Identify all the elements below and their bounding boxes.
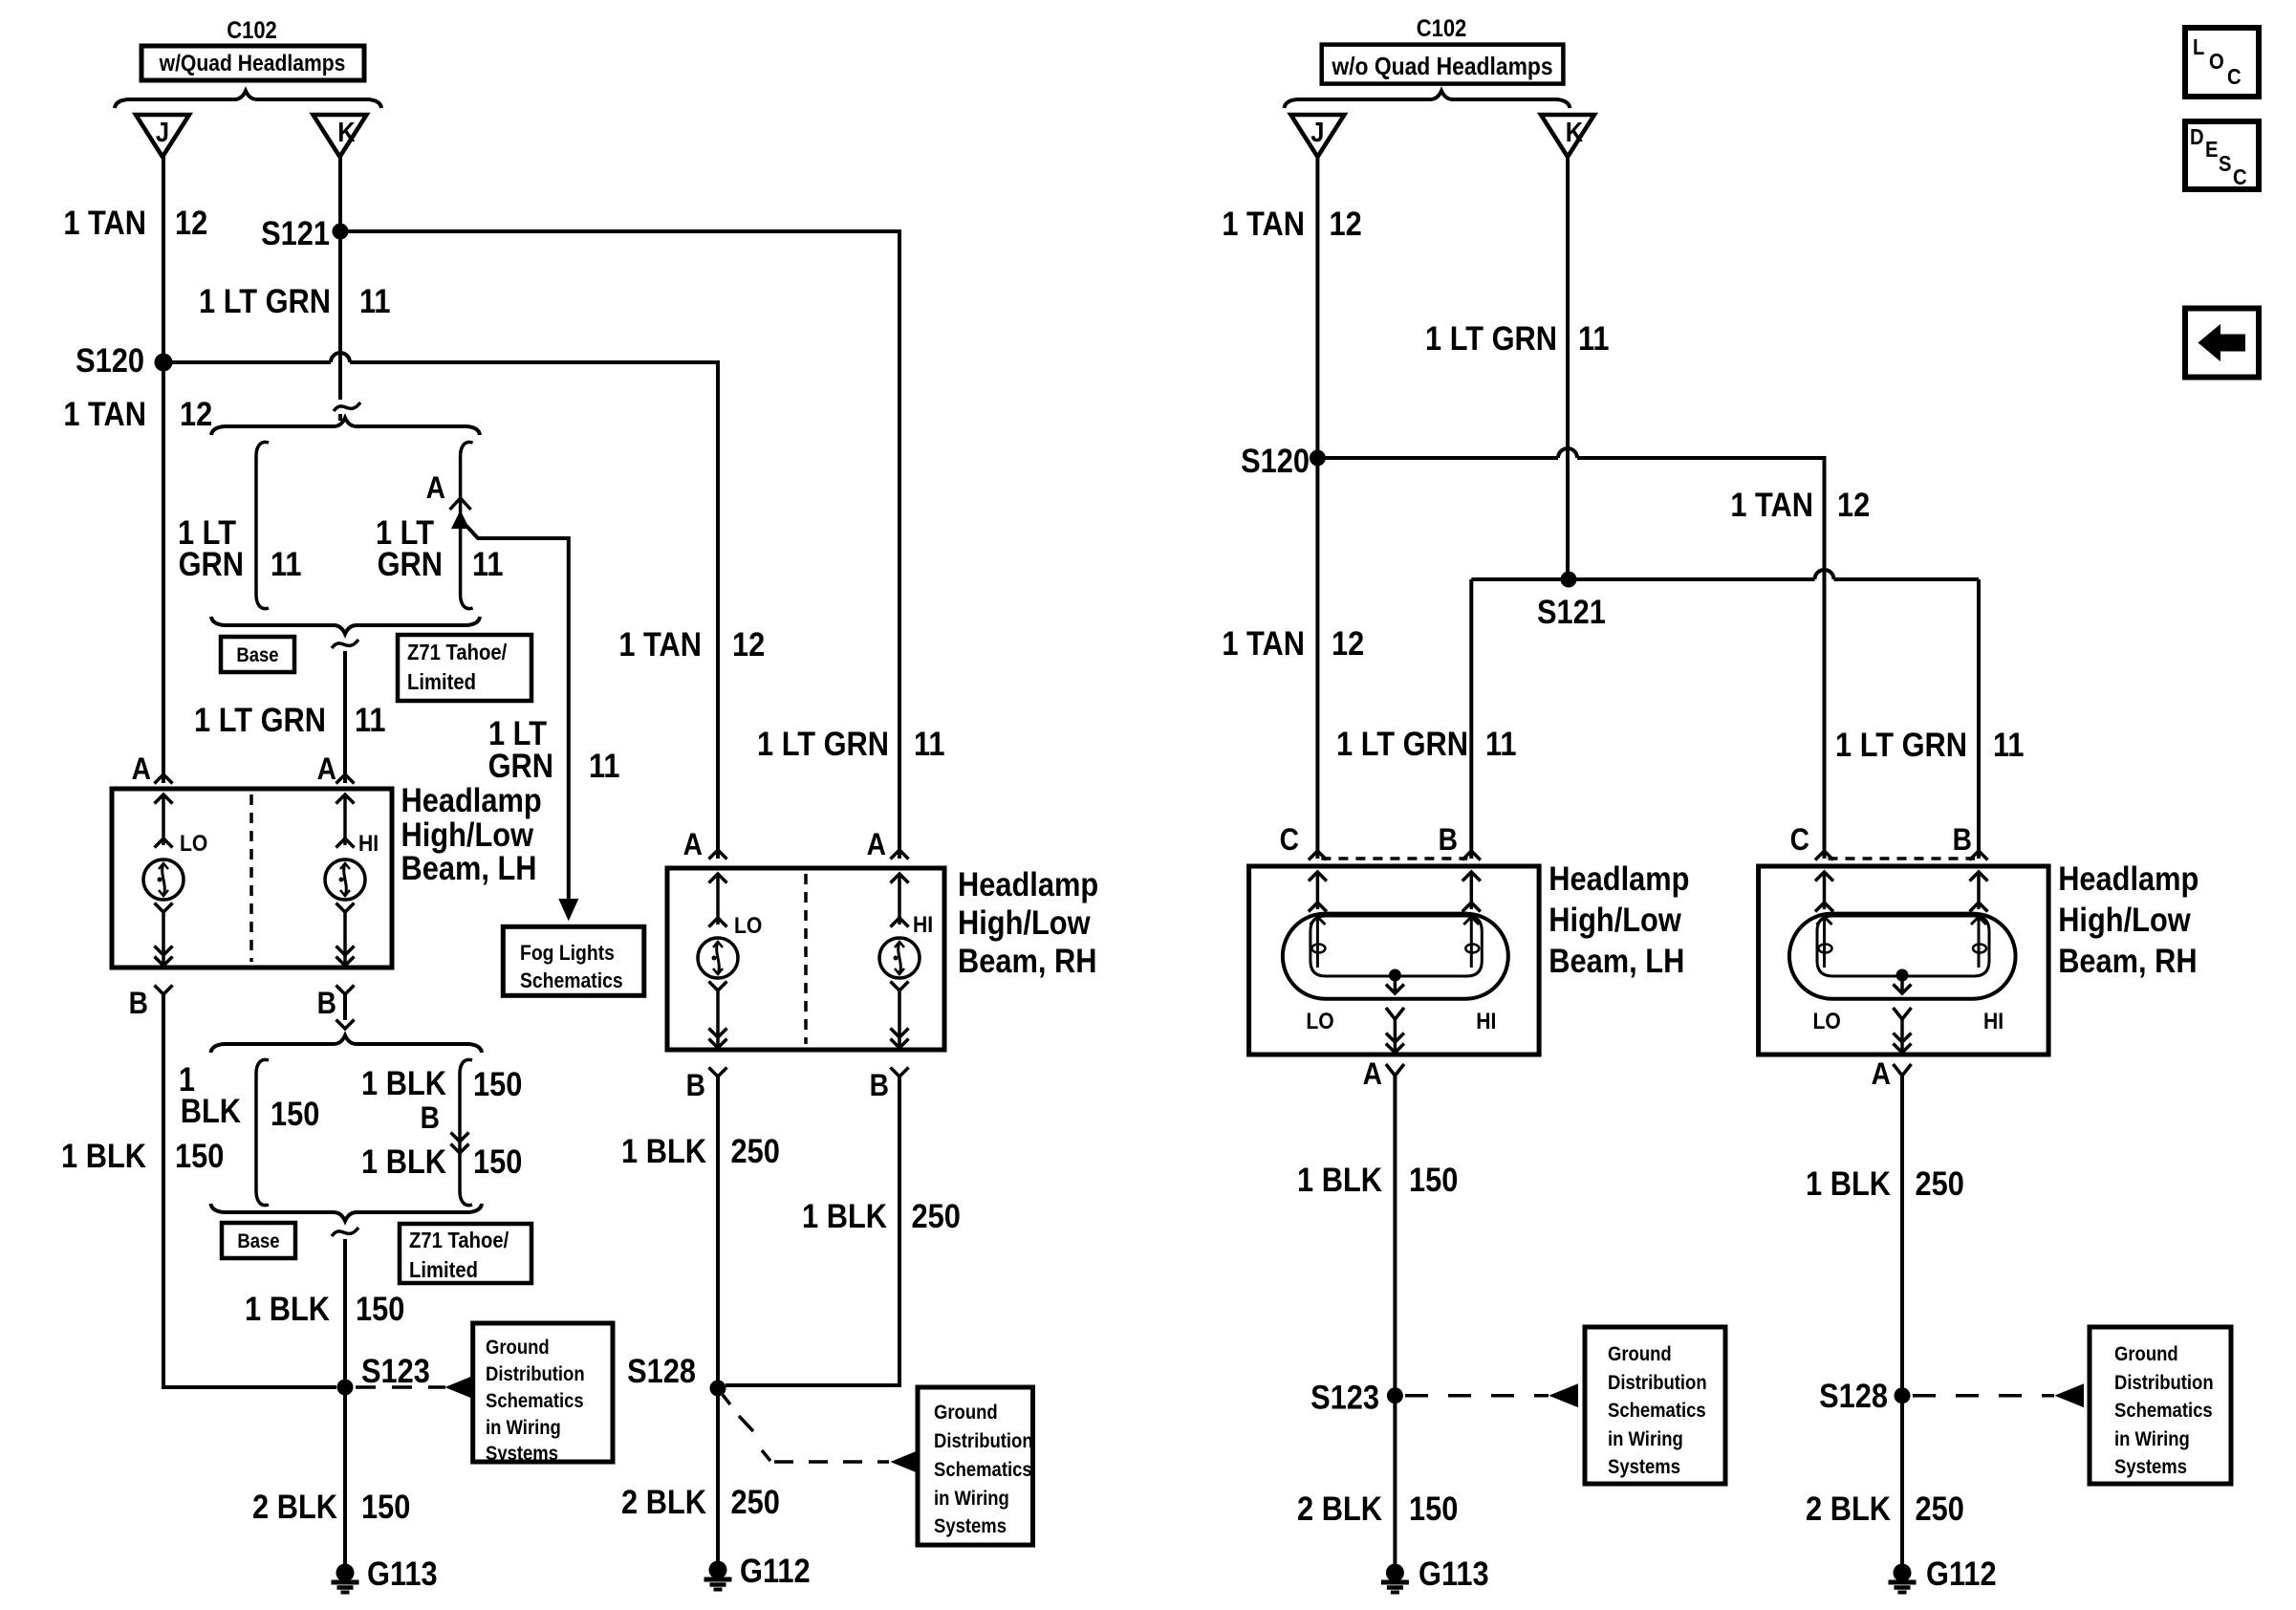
svg-text:A: A	[1363, 1057, 1382, 1091]
svg-text:Schematics: Schematics	[1608, 1400, 1706, 1422]
ground G112 (left)	[704, 1552, 811, 1589]
svg-text:11: 11	[271, 545, 302, 582]
label 1 LT GRN 11 (RH quad HI wire)	[757, 725, 945, 762]
svg-text:2 BLK: 2 BLK	[621, 1483, 706, 1520]
svg-text:GRN: GRN	[488, 747, 553, 784]
splice S121 (left)	[261, 214, 348, 251]
label 1 TAN 12 (RH quad LO wire)	[618, 625, 765, 663]
svg-text:S128: S128	[627, 1352, 696, 1389]
svg-text:12: 12	[1837, 486, 1870, 523]
svg-text:Ground: Ground	[1608, 1343, 1672, 1365]
legend box LOC	[2185, 28, 2259, 97]
svg-text:Headlamp: Headlamp	[958, 865, 1098, 903]
svg-text:B: B	[129, 987, 148, 1020]
svg-text:Systems: Systems	[934, 1515, 1007, 1537]
label pin A (right RH)	[1872, 1057, 1891, 1091]
ground G113 (left)	[332, 1555, 438, 1592]
splice S123 (left)	[337, 1352, 430, 1395]
svg-text:G112: G112	[740, 1552, 811, 1589]
box w/o Quad Headlamps	[1322, 45, 1564, 84]
ground G113 (right)	[1381, 1555, 1489, 1592]
svg-text:1 TAN: 1 TAN	[618, 625, 702, 663]
label 1 LT GRN 11 (merged wire)	[194, 701, 386, 738]
svg-text:A: A	[426, 471, 445, 505]
wire S121 to RH headlamp HI (left)	[340, 231, 899, 859]
label 2 BLK 150 (left)	[252, 1488, 410, 1525]
box Base (upper)	[221, 637, 294, 672]
label pin B (right RH)	[1953, 823, 1972, 857]
wire S120 to RH headlamp pin C (right)	[1317, 448, 1824, 859]
svg-text:12: 12	[1332, 624, 1364, 662]
svg-text:in Wiring: in Wiring	[486, 1417, 561, 1439]
svg-text:12: 12	[180, 395, 212, 432]
svg-text:150: 150	[271, 1095, 319, 1132]
svg-text:11: 11	[914, 725, 945, 762]
wire B left 1 BLK 150 down to S123	[163, 994, 336, 1387]
svg-text:11: 11	[1993, 726, 2025, 763]
label 1 BLK 250 (RH quad left B)	[621, 1132, 780, 1169]
svg-text:S123: S123	[361, 1352, 430, 1389]
wire S123 to ground G113 (left)	[343, 1387, 347, 1565]
label connector B (Z71 branch)	[421, 1101, 440, 1135]
svg-text:11: 11	[472, 545, 504, 582]
svg-text:Distribution: Distribution	[486, 1363, 585, 1385]
svg-text:C102: C102	[1417, 15, 1467, 42]
label pin B (RH quad left)	[686, 1069, 705, 1102]
wire RH pin B vertical (right)	[1977, 579, 1981, 859]
brace split Base/Z71 (upper)	[211, 418, 480, 435]
label pin B (LH headlamp right)	[317, 987, 336, 1020]
label pin B (right LH)	[1439, 823, 1458, 857]
svg-text:1 BLK: 1 BLK	[361, 1142, 446, 1180]
svg-text:Base: Base	[237, 1230, 279, 1252]
label 1 LTGRN 11 (right LH B wire)	[1336, 725, 1517, 762]
svg-text:11: 11	[589, 747, 620, 784]
headlamp High/Low Beam LH box (non-quad)	[1249, 851, 1540, 1076]
label 1 LTGRN 11 (right RH B wire)	[1835, 726, 2025, 763]
svg-text:G113: G113	[367, 1555, 438, 1592]
label HI (LH quad)	[358, 831, 379, 857]
wire B right to merge brace	[343, 994, 347, 1020]
svg-text:1 BLK: 1 BLK	[802, 1197, 887, 1234]
svg-text:Ground: Ground	[486, 1337, 550, 1359]
svg-text:Ground: Ground	[2114, 1343, 2178, 1365]
label 1 TAN 12 (left below S120)	[63, 395, 212, 432]
svg-text:B: B	[1953, 823, 1972, 857]
splice S128 (right)	[1819, 1377, 1910, 1414]
box Z71 Tahoe/Limited (upper)	[398, 635, 531, 701]
svg-text:250: 250	[731, 1483, 780, 1520]
svg-text:S120: S120	[76, 341, 144, 379]
label 1 LT GRN 11 (right K wire)	[1425, 319, 1610, 357]
svg-text:S121: S121	[261, 214, 330, 251]
svg-text:150: 150	[1409, 1490, 1458, 1527]
svg-text:LO: LO	[1813, 1009, 1841, 1034]
svg-text:J: J	[156, 116, 169, 147]
ground G112 (right)	[1889, 1555, 1997, 1592]
arrowhead into fog lights box	[560, 900, 577, 919]
svg-text:C: C	[2227, 64, 2242, 90]
svg-text:1 BLK: 1 BLK	[361, 1064, 446, 1101]
svg-text:12: 12	[732, 625, 765, 663]
wire S128 to G112 (right)	[1900, 1396, 1904, 1565]
legend box DESC	[2185, 121, 2259, 189]
svg-text:BLK: BLK	[181, 1092, 241, 1129]
wire S123 to G113 (right)	[1393, 1396, 1397, 1565]
label 1 BLK 150 (right LH)	[1297, 1161, 1458, 1198]
svg-text:HI: HI	[1983, 1009, 2004, 1034]
svg-text:1 BLK: 1 BLK	[621, 1132, 706, 1169]
svg-text:LO: LO	[1306, 1009, 1333, 1034]
svg-text:1 BLK: 1 BLK	[61, 1137, 146, 1174]
bracket Base branch (lower)	[256, 1059, 269, 1205]
wire J vertical 1 TAN (right)	[1315, 157, 1319, 859]
bulb HI LH headlamp (quad) with pin symbols	[325, 774, 365, 994]
wire pin A to S128 (right)	[1900, 1076, 1904, 1396]
legend box back arrow	[2185, 309, 2259, 378]
box Fog Lights Schematics	[503, 926, 644, 995]
label connector A (fog tap)	[426, 471, 445, 505]
label 1 BLK 150 Z71 upper	[361, 1064, 522, 1102]
svg-text:250: 250	[912, 1197, 961, 1234]
svg-text:C: C	[2233, 164, 2247, 190]
svg-text:250: 250	[1916, 1490, 1964, 1527]
wire S128 to ground G112 (left)	[716, 1388, 720, 1562]
svg-text:Schematics: Schematics	[934, 1459, 1032, 1481]
svg-text:Systems: Systems	[1608, 1456, 1680, 1478]
svg-text:1 LT GRN: 1 LT GRN	[1835, 726, 1967, 763]
splice S121 (right)	[1537, 572, 1606, 631]
label pin A (RH quad left)	[683, 828, 703, 861]
label pin A (LH headlamp right pin)	[317, 752, 336, 786]
svg-text:C: C	[1280, 823, 1299, 857]
brace merge Base/Z71 (lower)	[211, 1204, 483, 1221]
svg-text:S121: S121	[1537, 593, 1606, 630]
svg-text:Base: Base	[236, 644, 278, 666]
bracket Z71 branch (upper) with connector A to fog lights	[450, 442, 569, 900]
svg-text:Limited: Limited	[407, 669, 476, 695]
connector C102 label (right)	[1417, 15, 1467, 42]
svg-text:K: K	[337, 116, 356, 147]
wire merged 1 BLK to S123	[332, 1228, 358, 1387]
svg-text:1 BLK: 1 BLK	[1806, 1164, 1891, 1202]
label 1 BLK 150 Z71 lower	[361, 1142, 522, 1180]
svg-text:Distribution: Distribution	[934, 1430, 1033, 1452]
svg-text:w/o Quad Headlamps: w/o Quad Headlamps	[1331, 54, 1552, 81]
svg-text:C102: C102	[227, 17, 277, 44]
headlamp High/Low Beam RH box (non-quad)	[1759, 851, 2049, 1076]
svg-text:Beam, LH: Beam, LH	[1549, 942, 1684, 979]
svg-text:GRN: GRN	[378, 545, 443, 582]
label pin A (RH quad right)	[867, 828, 886, 861]
svg-text:Headlamp: Headlamp	[1549, 859, 1689, 897]
svg-text:Schematics: Schematics	[486, 1390, 584, 1412]
svg-text:A: A	[1872, 1057, 1891, 1091]
wire LH pin B vertical (right)	[1469, 579, 1473, 859]
svg-text:1 BLK: 1 BLK	[1297, 1161, 1382, 1198]
svg-text:C: C	[1790, 823, 1809, 857]
label 1 BLK 250 (right RH)	[1806, 1164, 1964, 1202]
svg-text:Schematics: Schematics	[2114, 1400, 2213, 1422]
svg-text:B: B	[317, 987, 336, 1020]
brace under C102 (left)	[115, 91, 381, 108]
svg-text:HI: HI	[358, 831, 379, 857]
label 1 TAN 12 (right top)	[1222, 205, 1361, 242]
svg-text:11: 11	[355, 701, 386, 738]
bulb HI RH headlamp (quad) with pin symbols	[879, 850, 920, 1077]
svg-text:HI: HI	[1476, 1009, 1496, 1034]
brace under C102 (right)	[1285, 91, 1570, 108]
svg-text:250: 250	[731, 1132, 780, 1169]
svg-text:Distribution: Distribution	[1608, 1372, 1707, 1394]
svg-text:O: O	[2209, 49, 2224, 75]
box Ground Distribution Schematics (S123 left)	[473, 1323, 613, 1465]
svg-text:D: D	[2190, 124, 2204, 150]
svg-text:Beam, RH: Beam, RH	[2058, 942, 2197, 979]
splice S120 (left)	[76, 341, 172, 379]
label 1 BLK 150 (left B wire)	[61, 1137, 224, 1174]
svg-text:1 TAN: 1 TAN	[1222, 624, 1305, 662]
label pin B (RH quad right)	[870, 1069, 889, 1102]
svg-text:Ground: Ground	[934, 1402, 998, 1424]
svg-text:S128: S128	[1819, 1377, 1888, 1414]
box Base (lower)	[222, 1223, 295, 1258]
svg-text:J: J	[1310, 116, 1324, 147]
svg-text:LO: LO	[734, 913, 762, 939]
label pin A (right LH)	[1363, 1057, 1382, 1091]
svg-text:LO: LO	[180, 831, 207, 857]
svg-text:Systems: Systems	[2114, 1456, 2187, 1478]
wire S121 crossbar (right)	[1471, 570, 1979, 579]
svg-text:B: B	[870, 1069, 889, 1102]
svg-text:K: K	[1566, 116, 1584, 147]
svg-text:B: B	[686, 1069, 705, 1102]
svg-text:Headlamp: Headlamp	[2058, 859, 2199, 897]
svg-text:11: 11	[1485, 725, 1517, 762]
wire pin A to S123 (right)	[1393, 1076, 1397, 1396]
svg-text:Distribution: Distribution	[2114, 1372, 2214, 1394]
svg-text:GRN: GRN	[179, 545, 244, 582]
label 2 BLK 150 (right)	[1297, 1490, 1458, 1527]
connector pin K (right)	[1541, 115, 1594, 157]
svg-text:A: A	[867, 828, 886, 861]
svg-text:Beam, RH: Beam, RH	[958, 942, 1096, 979]
label 1 LT GRN 11 (fog lights wire)	[488, 714, 620, 784]
svg-text:w/Quad Headlamps: w/Quad Headlamps	[159, 51, 346, 76]
chevron above merge brace	[336, 1020, 355, 1030]
svg-text:A: A	[683, 828, 703, 861]
splice S123 (right)	[1310, 1379, 1403, 1416]
svg-text:Schematics: Schematics	[520, 969, 623, 992]
label 1 LT GRN 11 Base branch (upper)	[178, 513, 302, 582]
wire K vertical to S121 (right)	[1566, 157, 1570, 579]
svg-text:1 LT GRN: 1 LT GRN	[194, 701, 326, 738]
svg-text:150: 150	[473, 1142, 522, 1180]
svg-text:1 TAN: 1 TAN	[1222, 205, 1305, 242]
label 1 LT GRN 11 (left, K wire)	[199, 282, 391, 319]
dashed reference S123 to ground distribution (right)	[1405, 1385, 1577, 1406]
svg-text:High/Low: High/Low	[2058, 901, 2191, 938]
brace merge Base/Z71 (upper)	[211, 617, 480, 634]
box w/Quad Headlamps	[141, 46, 364, 80]
splice S120 (right)	[1241, 442, 1326, 479]
svg-text:2 BLK: 2 BLK	[1297, 1490, 1382, 1527]
bulb LO LH headlamp (quad) with pin symbols	[143, 774, 184, 994]
svg-text:1 LT GRN: 1 LT GRN	[757, 725, 889, 762]
svg-text:High/Low: High/Low	[401, 816, 534, 853]
svg-text:HI: HI	[913, 912, 933, 938]
svg-text:S120: S120	[1241, 442, 1310, 479]
label pin A (LH headlamp left pin)	[132, 752, 151, 786]
svg-text:12: 12	[175, 204, 207, 241]
label Headlamp High/Low Beam, LH (non-quad)	[1549, 859, 1689, 979]
label LO (RH quad)	[734, 913, 762, 939]
svg-text:E: E	[2205, 137, 2219, 163]
svg-text:S123: S123	[1310, 1379, 1379, 1416]
svg-text:Limited: Limited	[409, 1257, 478, 1283]
label 1 TAN 12 (left top)	[63, 204, 207, 241]
label 2 BLK 250 (right)	[1806, 1490, 1964, 1527]
svg-text:Beam, LH: Beam, LH	[401, 849, 537, 886]
svg-text:11: 11	[359, 282, 391, 319]
connector pin J (left)	[136, 115, 189, 157]
label 1 BLK 150 Base branch (lower)	[179, 1060, 319, 1132]
svg-text:12: 12	[1330, 205, 1362, 242]
svg-text:Fog Lights: Fog Lights	[520, 942, 615, 965]
label Headlamp High/Low Beam, RH (non-quad)	[2058, 859, 2199, 979]
label LO (LH quad)	[180, 831, 207, 857]
label pin B (LH headlamp left)	[129, 987, 148, 1020]
label pin C (right LH)	[1280, 823, 1299, 857]
svg-text:150: 150	[356, 1290, 404, 1327]
svg-text:B: B	[421, 1101, 440, 1135]
label 1 BLK 150 (merged ground wire)	[245, 1290, 404, 1327]
svg-text:150: 150	[1409, 1161, 1458, 1198]
brace split Base/Z71 (lower)	[211, 1035, 483, 1053]
svg-text:A: A	[132, 752, 151, 786]
label 1 TAN 12 (right J below S120)	[1222, 624, 1364, 662]
svg-text:G112: G112	[1926, 1555, 1997, 1592]
svg-text:11: 11	[1578, 319, 1610, 357]
wire B left 1 BLK 250 down to S128	[716, 1077, 720, 1388]
wire B right 1 BLK 250 to S128	[726, 1077, 899, 1385]
label 1 TAN 12 (right, S120 wire)	[1730, 486, 1870, 523]
wire J vertical 1 TAN (left)	[162, 157, 165, 783]
label Headlamp High/Low Beam, LH (quad)	[401, 781, 542, 886]
svg-text:B: B	[1439, 823, 1458, 857]
connector C102 label (left)	[227, 17, 277, 44]
bracket Base branch (upper)	[256, 442, 269, 608]
svg-text:Systems: Systems	[486, 1443, 558, 1465]
svg-text:Headlamp: Headlamp	[401, 781, 542, 818]
dashed reference S128 to ground distribution (right)	[1913, 1385, 2083, 1406]
svg-text:2 BLK: 2 BLK	[252, 1488, 337, 1525]
box Ground Distribution Schematics (S128 left)	[918, 1387, 1033, 1545]
svg-text:2 BLK: 2 BLK	[1806, 1490, 1891, 1527]
box Ground Distribution Schematics (S128 right)	[2090, 1327, 2231, 1484]
label Headlamp High/Low Beam, RH (quad)	[958, 865, 1098, 979]
box Z71 Tahoe/Limited (lower)	[400, 1224, 531, 1283]
bracket Z71 branch (lower) with inline connector B	[451, 1059, 473, 1205]
svg-text:Z71 Tahoe/: Z71 Tahoe/	[409, 1228, 509, 1253]
label pin C (right RH)	[1790, 823, 1809, 857]
svg-text:250: 250	[1916, 1164, 1964, 1202]
svg-text:G113: G113	[1419, 1555, 1489, 1592]
svg-text:in Wiring: in Wiring	[934, 1488, 1009, 1510]
dashed reference S128 to ground distribution (left)	[723, 1395, 919, 1472]
svg-text:1 TAN: 1 TAN	[63, 395, 146, 432]
svg-text:in Wiring: in Wiring	[2114, 1428, 2190, 1450]
svg-text:A: A	[317, 752, 336, 786]
wire-break squiggle on K wire	[334, 402, 360, 411]
headlamp High/Low Beam RH box (quad)	[667, 868, 944, 1050]
headlamp High/Low Beam LH box (quad)	[112, 789, 392, 968]
svg-text:High/Low: High/Low	[958, 903, 1091, 941]
label 2 BLK 250 (left)	[621, 1483, 780, 1520]
connector pin J (right)	[1290, 115, 1344, 157]
svg-text:1 LT GRN: 1 LT GRN	[1336, 725, 1468, 762]
svg-text:1 BLK: 1 BLK	[245, 1290, 330, 1327]
svg-text:High/Low: High/Low	[1549, 901, 1681, 938]
label HI (RH quad)	[913, 912, 933, 938]
label 1 LT GRN 11 Z71 branch (upper)	[376, 513, 504, 582]
svg-text:150: 150	[175, 1137, 224, 1174]
dashed reference S123 to ground distribution (left)	[356, 1377, 473, 1398]
label 1 BLK 250 (RH quad right B)	[802, 1197, 961, 1234]
svg-text:150: 150	[473, 1065, 522, 1102]
svg-text:1 LT GRN: 1 LT GRN	[1425, 319, 1557, 357]
box Ground Distribution Schematics (S123 right)	[1585, 1327, 1725, 1484]
svg-text:L: L	[2193, 34, 2204, 60]
bulb LO RH headlamp (quad) with pin symbols	[698, 850, 738, 1077]
wire K vertical 1 LT GRN (left)	[338, 157, 342, 421]
svg-text:1 LT GRN: 1 LT GRN	[199, 282, 331, 319]
wire merged 1 LT GRN to LH headlamp pin A right	[332, 640, 358, 783]
connector pin K (left)	[314, 115, 367, 157]
svg-text:1 TAN: 1 TAN	[63, 204, 146, 241]
svg-text:Z71 Tahoe/: Z71 Tahoe/	[407, 640, 507, 665]
svg-text:150: 150	[361, 1488, 410, 1525]
svg-text:1 TAN: 1 TAN	[1730, 486, 1813, 523]
svg-text:in Wiring: in Wiring	[1608, 1428, 1683, 1450]
wire S120 to RH headlamp LO (left)	[163, 353, 718, 859]
svg-text:S: S	[2219, 151, 2232, 177]
splice S128 (left)	[627, 1352, 726, 1396]
